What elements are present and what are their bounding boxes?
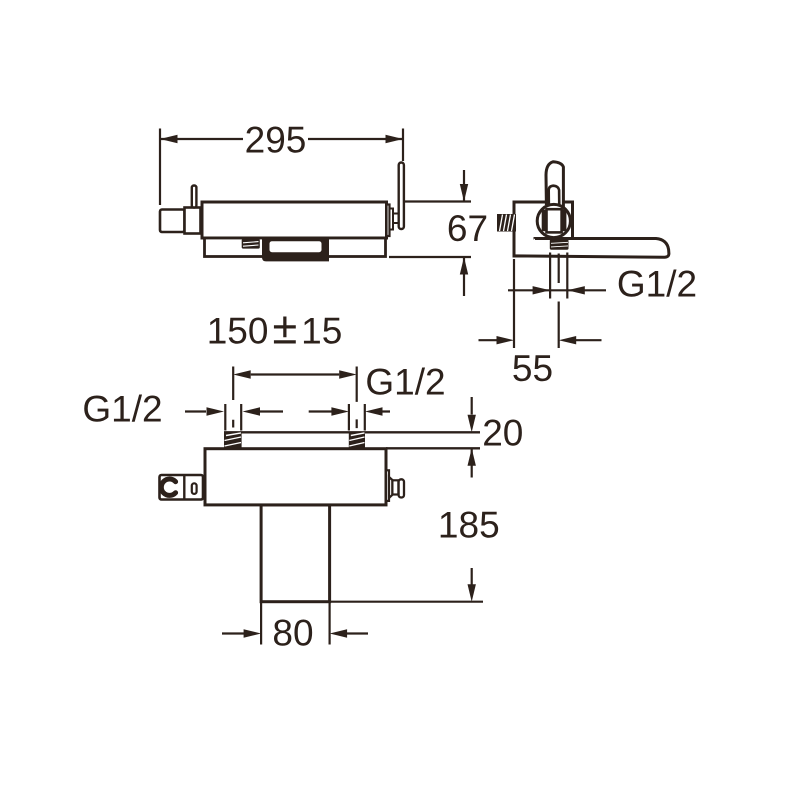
svg-text:80: 80 [272,613,313,654]
svg-text:67: 67 [447,208,488,249]
svg-text:G1/2: G1/2 [82,389,162,430]
svg-text:295: 295 [245,120,307,161]
svg-text:150±15: 150±15 [207,303,343,354]
svg-text:G1/2: G1/2 [365,362,445,403]
svg-text:20: 20 [482,413,523,454]
svg-text:55: 55 [512,348,553,389]
svg-text:185: 185 [438,505,500,546]
svg-text:G1/2: G1/2 [617,264,697,305]
